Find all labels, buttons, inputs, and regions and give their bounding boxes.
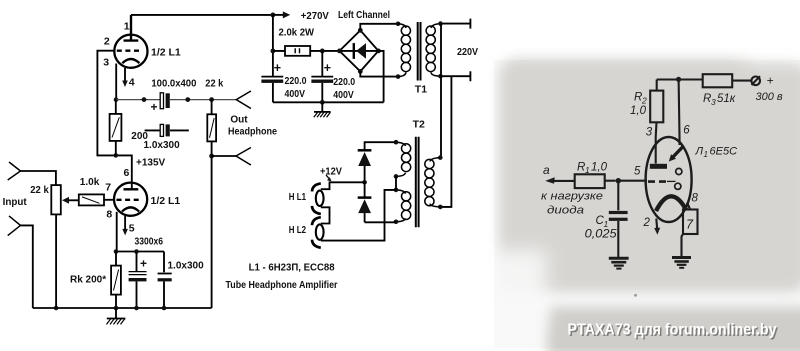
- resistor R3: [703, 74, 751, 87]
- node PSU ground: [320, 100, 325, 105]
- wire center tap to heater return: [321, 190, 396, 241]
- node 22k top: [209, 97, 214, 102]
- svg-text:к нагрузке: к нагрузке: [541, 191, 603, 203]
- ground rail bottom: [33, 307, 212, 309]
- node 1.0x300 left: [142, 97, 147, 102]
- pin 8 lead and label: [687, 193, 699, 210]
- resistor 22k output load: [207, 100, 216, 308]
- wire T2 top to diode D1: [365, 142, 396, 150]
- svg-text:220.0: 220.0: [333, 77, 355, 88]
- lamp HL2 (heater): [312, 217, 324, 248]
- tube U1b (lower half 6N23P) envelope: [114, 183, 147, 216]
- capacitor C1: [609, 181, 628, 257]
- svg-text:5: 5: [634, 166, 641, 178]
- out jack lower: [236, 148, 251, 166]
- node T2 center tap upper: [394, 174, 399, 179]
- diode D2: [358, 182, 372, 222]
- watermark PTAXA73: [568, 321, 779, 340]
- label L1 type: [249, 262, 335, 274]
- wire HL1 to HL2: [321, 207, 330, 223]
- wire D2 to T2 bottom: [365, 221, 396, 223]
- wire junction to pin 6: [678, 79, 681, 137]
- resistor R2: [650, 80, 663, 138]
- node 3300 cap top: [134, 249, 139, 254]
- label 22 k input: [30, 184, 49, 196]
- label H L2: [289, 225, 307, 236]
- label R2 1,0: [630, 92, 647, 117]
- node R2/R3/pin6 junction: [676, 77, 681, 82]
- svg-text:Left Channel: Left Channel: [338, 10, 390, 21]
- svg-text:1.0k: 1.0k: [80, 177, 100, 188]
- node T2 center tap lower: [394, 188, 399, 193]
- label Input: [3, 196, 27, 208]
- svg-text:+135V: +135V: [136, 158, 166, 169]
- svg-text:Л: Л: [695, 146, 704, 158]
- capacitor 1.0x300 lower bypass: [158, 252, 172, 309]
- label 1/2 L1 upper: [151, 47, 181, 59]
- resistor R1: [545, 174, 615, 188]
- tube U1b plate: [124, 188, 139, 190]
- pin 2 label: [104, 36, 110, 48]
- svg-text:400V: 400V: [285, 89, 306, 100]
- labels 220.0 400V second: [333, 77, 355, 101]
- svg-text:22 k: 22 k: [30, 184, 49, 196]
- ground symbol main: [107, 308, 126, 324]
- capacitor 220.0 400V first: [261, 61, 283, 102]
- label title: [226, 279, 338, 291]
- capacitor 1.0x300 (mid bypass): [145, 124, 189, 136]
- tube U1a plate and lead to B+ wire: [124, 15, 139, 41]
- pin 7 label: [105, 182, 111, 194]
- svg-text:51к: 51к: [717, 93, 736, 105]
- arrow +270V: [273, 11, 290, 18]
- tube V2 6E5C envelope: [646, 137, 692, 222]
- tube V2 grid (dashed, pin 5): [648, 180, 676, 183]
- resistor 1.0k grid stopper: [79, 194, 114, 205]
- wire 220V top terminal: [438, 19, 470, 29]
- svg-text:22 k: 22 k: [205, 79, 223, 90]
- svg-text:+12V: +12V: [320, 167, 342, 178]
- input jack lower: [8, 216, 33, 308]
- svg-text:PTAXA73 для forum.onliner.by: PTAXA73 для forum.onliner.by: [568, 321, 777, 338]
- svg-text:4: 4: [129, 76, 135, 88]
- label 220V: [457, 47, 478, 58]
- pin 6 label (right tube): [683, 125, 690, 137]
- svg-text:Out: Out: [230, 115, 248, 126]
- svg-text:1: 1: [604, 219, 609, 229]
- label Left Channel: [338, 10, 390, 21]
- wire bridge to T1 bottom: [360, 71, 400, 78]
- tube V2 anode electrode (pin 3): [650, 137, 667, 169]
- label 2.0k 2W: [279, 27, 315, 38]
- svg-text:H L2: H L2: [289, 225, 307, 236]
- svg-text:1/2 L1: 1/2 L1: [151, 47, 181, 59]
- node rail pot: [54, 306, 59, 311]
- svg-text:2: 2: [643, 217, 651, 229]
- svg-text:1: 1: [124, 21, 130, 33]
- svg-text:а: а: [543, 163, 550, 177]
- svg-text:220.0: 220.0: [285, 76, 307, 87]
- label 100.0x400: [151, 79, 196, 90]
- transformer T2 secondary upper coil: [396, 142, 411, 176]
- svg-text:8: 8: [692, 193, 699, 205]
- label +135V: [136, 158, 166, 169]
- wire bridge to T1 top: [360, 22, 400, 31]
- label 1.0k: [80, 177, 100, 188]
- node T2 bottom lead: [394, 220, 399, 225]
- node rail 3300: [134, 306, 139, 311]
- tube V2 eye screen crescent: [656, 196, 687, 211]
- wire B+ top to PSU: [131, 14, 273, 16]
- wire bridge minus down: [378, 51, 383, 102]
- label 200: [131, 131, 148, 142]
- label 22 k: [205, 79, 223, 90]
- tube U1a heater pin 4 arrow: [122, 68, 135, 88]
- svg-text:400V: 400V: [333, 90, 354, 101]
- svg-text:1,0: 1,0: [630, 105, 647, 117]
- svg-text:6: 6: [124, 167, 130, 179]
- ground symbol C1: [609, 258, 629, 268]
- svg-text:1.0x300: 1.0x300: [168, 261, 205, 272]
- wire PSU bottom rail: [273, 101, 384, 103]
- resistor Rk 200: [111, 252, 121, 309]
- node R1/C1: [616, 178, 621, 183]
- tube U1b grid (dashed): [117, 199, 142, 201]
- wire U1a cathode down: [115, 64, 117, 100]
- label T2: [413, 119, 425, 131]
- label R1 1,0: [577, 162, 608, 176]
- wire lower jack: [212, 155, 236, 157]
- transformer T1 secondary coil: [426, 24, 440, 77]
- pin 8 label: [106, 208, 112, 220]
- svg-text:+: +: [151, 100, 158, 114]
- svg-text:6Е5С: 6Е5С: [710, 146, 738, 158]
- svg-text:8: 8: [106, 208, 112, 220]
- label R3 51k: [703, 93, 736, 107]
- label L1 6E5C: [695, 146, 738, 160]
- label T1: [415, 84, 427, 96]
- svg-text:2: 2: [104, 36, 110, 48]
- resistor 2.0k 2W: [273, 46, 340, 56]
- wire cathode node horizontal: [116, 251, 164, 253]
- wire T2 center tap link: [395, 176, 397, 190]
- tube V2 cathode dots: [675, 168, 682, 189]
- transformer T1 core: [418, 22, 421, 81]
- svg-text:3: 3: [103, 57, 109, 69]
- svg-text:L1 - 6Н23П, ECC88: L1 - 6Н23П, ECC88: [249, 262, 335, 274]
- label 1/2 L1 lower: [151, 195, 181, 207]
- labels 220.0 400V first: [285, 76, 307, 100]
- out jack upper: [236, 91, 251, 109]
- wire PSU left vertical: [272, 15, 274, 76]
- label 1.0x300 mid: [144, 140, 181, 151]
- ground symbol PSU: [314, 102, 331, 117]
- node lower-plate junction: [114, 153, 119, 158]
- capacitor 100.0x400 coupling: [151, 93, 170, 114]
- node resistor left: [271, 49, 276, 54]
- svg-text:+: +: [140, 257, 147, 271]
- node cap2 top: [320, 49, 325, 54]
- label a terminal: [543, 163, 550, 177]
- box pin 7: [682, 210, 698, 257]
- transformer T2 secondary lower coil: [396, 190, 411, 222]
- node 1.0x300 right: [185, 97, 190, 102]
- diode D1: [358, 150, 372, 182]
- svg-text:Tube Headphone Amplifier: Tube Headphone Amplifier: [226, 279, 338, 291]
- svg-text:220V: 220V: [457, 47, 478, 58]
- svg-text:3300x6: 3300x6: [135, 236, 164, 247]
- input jack upper: [8, 162, 56, 185]
- svg-text:7: 7: [105, 182, 111, 194]
- label к нагрузке диода: [541, 191, 603, 217]
- speck artifact: [634, 294, 637, 297]
- tube U1a (upper half 6N23P) envelope: [114, 35, 147, 68]
- node cathode-output junction: [114, 97, 119, 102]
- pin 3 label (right tube): [646, 127, 653, 139]
- label H L1: [289, 192, 307, 203]
- node +12V junction: [362, 180, 367, 185]
- lamp HL1 (heater): [312, 183, 324, 214]
- svg-text:300 в: 300 в: [756, 91, 783, 103]
- wire grid U1a to feedback node: [97, 51, 131, 190]
- capacitor 220.0 400V second: [311, 51, 333, 102]
- svg-text:7: 7: [686, 218, 694, 232]
- label 3300x6: [135, 236, 164, 247]
- transformer T1 primary coil: [398, 24, 411, 77]
- node rail 1.0x300: [162, 306, 167, 311]
- svg-text:3: 3: [646, 127, 653, 139]
- svg-text:0,025: 0,025: [585, 229, 618, 241]
- node B+ corner: [271, 13, 276, 18]
- scan background gray area: [468, 0, 800, 351]
- svg-text:T1: T1: [415, 84, 427, 96]
- pin 1 label: [124, 21, 130, 33]
- wire U1b cathode down: [116, 212, 118, 252]
- svg-text:Headphone: Headphone: [228, 127, 277, 138]
- svg-text:T2: T2: [413, 119, 425, 131]
- svg-text:5: 5: [129, 223, 135, 235]
- tube U1b heater pin 5 arrow: [122, 216, 134, 235]
- bridge rectifier diamond: [337, 28, 381, 74]
- svg-text:1: 1: [704, 150, 708, 159]
- label C1 0,025: [585, 215, 618, 241]
- tube U1b cathode: [122, 207, 139, 211]
- svg-text:100.0x400: 100.0x400: [151, 79, 196, 90]
- wire +12V to HL1: [321, 182, 365, 189]
- bridge diode: [341, 43, 377, 59]
- ground symbol pin7: [672, 258, 691, 268]
- svg-text:Input: Input: [3, 196, 27, 208]
- svg-text:2.0k 2W: 2.0k 2W: [279, 27, 315, 38]
- svg-text:Rk 200*: Rk 200*: [70, 274, 106, 285]
- node T2 top lead: [394, 140, 399, 145]
- svg-text:1.0x300: 1.0x300: [144, 140, 181, 151]
- label Rk 200*: [70, 274, 106, 285]
- resistor 200 (upper cathode): [110, 100, 122, 156]
- node Rk top: [114, 249, 119, 254]
- svg-text:1/2 L1: 1/2 L1: [151, 195, 181, 207]
- svg-text:H L1: H L1: [289, 192, 307, 203]
- wire B+ top (right schematic): [657, 78, 703, 80]
- potentiometer 22k: [51, 185, 79, 308]
- wire mains drop 2: [438, 76, 451, 209]
- pin 3 label: [103, 57, 109, 69]
- wire output node horizontal: [116, 99, 236, 101]
- tube V2 heater pin 2 arrow: [643, 217, 661, 235]
- label Out Headphone: [228, 115, 277, 138]
- terminal +300V: [751, 74, 783, 104]
- svg-text:1,0: 1,0: [591, 162, 608, 174]
- svg-text:3: 3: [711, 97, 716, 107]
- label +12V with arrow: [320, 167, 342, 182]
- node rail Rk: [114, 306, 119, 311]
- pin 5 label (right tube): [634, 166, 641, 178]
- svg-text:+270V: +270V: [301, 10, 329, 22]
- svg-text:диода: диода: [547, 205, 584, 217]
- svg-text:+: +: [767, 74, 774, 88]
- tube U1a cathode: [122, 59, 139, 63]
- pin 6 label: [124, 167, 130, 179]
- label 1.0x300 lower: [168, 261, 205, 272]
- transformer T2 primary coil: [425, 158, 441, 207]
- label +270V: [301, 10, 329, 22]
- tube V2 eye target arrow (pin 6): [669, 137, 684, 162]
- svg-text:6: 6: [683, 125, 690, 137]
- node out lower jack: [209, 154, 214, 159]
- capacitor 3300x6 electrolytic: [129, 252, 147, 309]
- svg-text:+: +: [324, 61, 331, 75]
- wire pin 5 to R1/C1 node: [618, 180, 647, 182]
- svg-text:+: +: [274, 61, 281, 75]
- transformer T2 core: [416, 137, 419, 228]
- svg-text:1: 1: [585, 165, 590, 175]
- wire 220V bottom terminal: [438, 71, 470, 81]
- tube U1a grid (dashed): [117, 50, 142, 52]
- wire mains drop 1: [438, 24, 443, 160]
